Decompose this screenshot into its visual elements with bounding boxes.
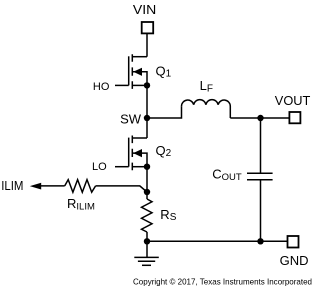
wire ILIM node to resistor RILIM	[96, 186, 147, 192]
wire inductor to VOUT terminal	[230, 117, 289, 119]
junction dot VOUT node	[257, 115, 263, 121]
wire LO gate lead	[115, 166, 129, 168]
terminal VIN	[142, 22, 154, 33]
svg-text:LO: LO	[92, 161, 107, 173]
junction dot COUT bottom	[257, 238, 263, 244]
svg-text:RS: RS	[160, 207, 176, 223]
junction dot SW node	[144, 115, 150, 121]
svg-text:VOUT: VOUT	[275, 93, 311, 108]
resistor RS	[142, 199, 153, 232]
wire Q1 source to SW node	[146, 85, 148, 118]
inductor LF	[181, 100, 230, 118]
svg-text:ILIM: ILIM	[1, 179, 23, 193]
wire RILIM to ILIM arrow	[41, 185, 65, 187]
junction dot Q1 source	[144, 82, 150, 88]
wire COUT to ground rail	[260, 181, 262, 242]
resistor RILIM	[65, 180, 96, 193]
svg-text:Copyright © 2017, Texas Instru: Copyright © 2017, Texas Instruments Inco…	[133, 276, 312, 286]
wire SW node to inductor	[147, 106, 182, 118]
wire ground rail	[147, 240, 288, 242]
wire ILIM node to resistor RS	[146, 192, 148, 199]
wire HO gate lead	[115, 84, 129, 86]
svg-text:HO: HO	[93, 81, 110, 93]
svg-text:RILIM: RILIM	[67, 196, 95, 213]
terminal VOUT	[289, 112, 300, 123]
junction dot Q2 source	[144, 164, 150, 170]
svg-text:Q2: Q2	[156, 143, 172, 159]
wire Q2 source to ILIM node	[146, 167, 148, 192]
svg-text:Q1: Q1	[156, 63, 172, 79]
transistor Q1	[129, 54, 147, 89]
svg-text:VIN: VIN	[133, 2, 156, 17]
arrow ILIM output	[30, 183, 41, 190]
capacitor COUT	[247, 173, 273, 179]
wire VIN terminal to Q1 drain	[146, 33, 148, 56]
junction dot ground rail at RS	[144, 238, 150, 244]
svg-text:COUT: COUT	[212, 167, 242, 183]
transistor Q2	[129, 136, 147, 171]
wire SW node to Q2 drain	[146, 118, 148, 138]
svg-text:GND: GND	[280, 253, 309, 268]
ground	[134, 241, 159, 265]
junction dot ILIM node	[144, 189, 150, 195]
terminal GND	[288, 236, 299, 248]
svg-text:SW: SW	[120, 111, 142, 126]
svg-text:LF: LF	[200, 78, 213, 95]
wire RS to ground rail	[146, 232, 148, 241]
wire VOUT node to capacitor COUT	[260, 118, 262, 173]
